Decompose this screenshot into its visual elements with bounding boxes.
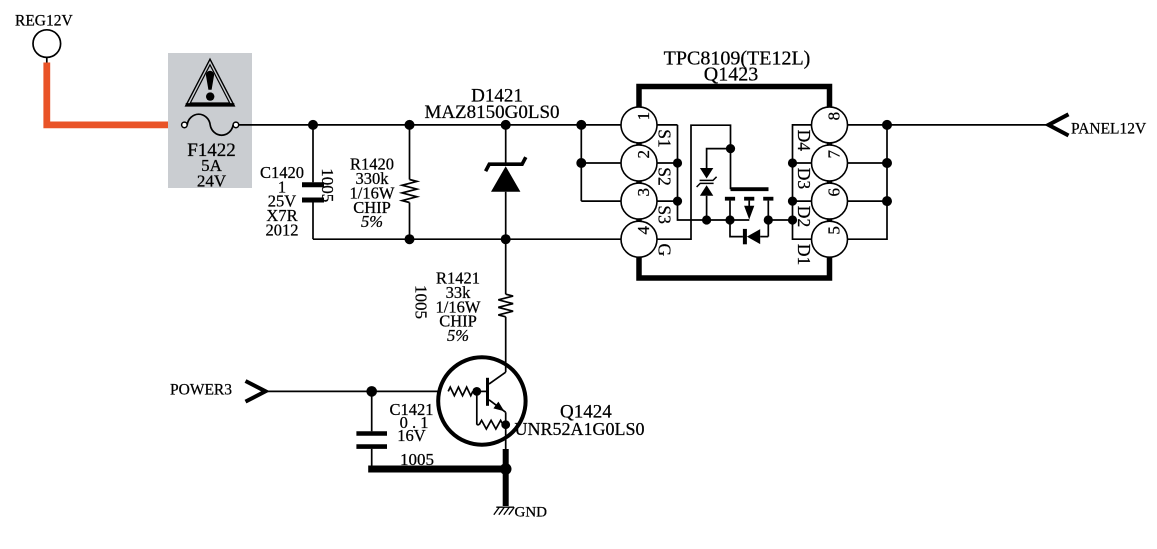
wire D-pins bus xyxy=(793,125,812,239)
wire gate path xyxy=(657,125,731,239)
label C1421 value block xyxy=(389,400,433,445)
junction mosfet drain xyxy=(764,215,773,224)
junction gate/zener xyxy=(726,144,735,153)
wire PANEL12V xyxy=(887,124,1049,126)
junction R1420 bottom xyxy=(405,234,415,244)
ground GND xyxy=(494,507,515,515)
svg-text:REG12V: REG12V xyxy=(15,12,74,29)
zener diode D1421 xyxy=(486,125,526,294)
junction D3 bus xyxy=(788,158,797,167)
junction pin8 bus xyxy=(882,120,892,130)
junction pin2 branch xyxy=(576,158,586,168)
pin 1 circle xyxy=(621,107,657,143)
pin 6 circle xyxy=(812,183,848,219)
junction node S-pins top xyxy=(576,120,586,130)
wire to pin2 xyxy=(581,162,621,164)
wire pin8 to output bus xyxy=(848,124,888,126)
resistor R1421 xyxy=(498,294,513,372)
wire output bus xyxy=(848,125,888,239)
svg-text:S2: S2 xyxy=(654,167,674,185)
wire drain to D bus xyxy=(768,219,792,221)
wire REG12V to F1422 (orange highlight) xyxy=(47,63,182,125)
svg-text:1005: 1005 xyxy=(318,168,337,202)
svg-text:GND: GND xyxy=(515,505,548,521)
pin 7 circle xyxy=(812,145,848,181)
svg-text:1005: 1005 xyxy=(411,285,430,319)
wire to pin3 xyxy=(581,200,621,202)
wire F1422 to IC pin1 (12V rail) xyxy=(239,124,621,126)
junction node R1420 top xyxy=(405,120,415,130)
junction D bus rail xyxy=(788,215,797,224)
label F1422 5A 24V xyxy=(187,140,236,191)
wire gate to protection zener xyxy=(707,149,731,168)
wire pin7 to output bus xyxy=(848,162,888,164)
svg-text:D3: D3 xyxy=(794,168,814,190)
capacitor C1420 xyxy=(302,125,324,239)
warning symbol xyxy=(186,59,235,106)
body diode Q1423 xyxy=(730,220,768,244)
svg-text:4: 4 xyxy=(634,226,653,235)
svg-text:5: 5 xyxy=(825,226,844,235)
junction zener-source xyxy=(702,215,711,224)
transistor Q1424 xyxy=(438,357,525,449)
terminal REG12V xyxy=(33,30,61,66)
label C1420 value block xyxy=(260,163,304,240)
svg-text:7: 7 xyxy=(825,149,844,158)
pin 2 circle xyxy=(621,145,657,181)
pin 3 circle xyxy=(621,183,657,219)
label R1420 value block xyxy=(350,155,395,232)
pin 4 circle xyxy=(621,221,657,257)
svg-text:S3: S3 xyxy=(654,205,674,224)
fuse F1422 xyxy=(182,114,239,135)
svg-text:1: 1 xyxy=(634,112,653,121)
junction node C1420 top xyxy=(308,120,318,130)
svg-text:6: 6 xyxy=(825,188,844,197)
label R1421 value block xyxy=(436,269,481,346)
svg-text:16V: 16V xyxy=(397,426,426,445)
junction C1421 top xyxy=(366,386,377,397)
svg-text:2012: 2012 xyxy=(266,221,299,240)
svg-text:2: 2 xyxy=(634,150,653,159)
fuse highlight box xyxy=(168,53,252,188)
protection zener pair (gate-source) xyxy=(697,168,717,220)
junction S3 bus xyxy=(673,197,682,206)
svg-text:24V: 24V xyxy=(197,171,227,190)
output chevron PANEL12V xyxy=(1049,114,1069,135)
pin 8 circle xyxy=(812,107,848,143)
wire G rail (C1420 to IC pin4) xyxy=(313,238,621,240)
svg-text:3: 3 xyxy=(634,188,653,197)
wire GND heavy trace xyxy=(368,449,506,506)
svg-text:5%: 5% xyxy=(361,212,383,231)
resistor R1420 xyxy=(402,125,417,239)
wire S-pins bus xyxy=(657,125,749,220)
junction mosfet source xyxy=(725,215,734,224)
svg-text:Q1423: Q1423 xyxy=(704,63,758,85)
svg-text:PANEL12V: PANEL12V xyxy=(1071,120,1147,137)
junction S2 bus xyxy=(673,158,682,167)
svg-text:D1: D1 xyxy=(794,244,814,265)
wire pin6 to output bus xyxy=(848,200,888,202)
svg-text:G: G xyxy=(654,244,674,257)
svg-text:8: 8 xyxy=(825,112,844,121)
junction GND trace xyxy=(500,463,512,475)
svg-text:5%: 5% xyxy=(447,326,469,345)
svg-text:POWER3: POWER3 xyxy=(170,381,232,398)
junction pin7 bus xyxy=(882,158,892,168)
svg-text:D2: D2 xyxy=(794,206,814,227)
svg-text:D4: D4 xyxy=(794,130,814,152)
svg-text:UNR52A1G0LS0: UNR52A1G0LS0 xyxy=(515,419,645,439)
capacitor C1421 xyxy=(356,391,387,466)
junction Q1424 base xyxy=(472,387,481,396)
junction D2 bus xyxy=(788,197,797,206)
wire pin1 branch vertical xyxy=(580,125,582,201)
mosfet Q1423 internal xyxy=(725,189,774,236)
junction pin6 bus xyxy=(882,196,892,206)
svg-text:S1: S1 xyxy=(654,129,674,147)
junction D1421 bottom xyxy=(501,234,511,244)
svg-text:MAZ8150G0LS0: MAZ8150G0LS0 xyxy=(424,102,559,123)
pin 5 circle xyxy=(812,221,848,257)
junction node D1421 top xyxy=(501,120,511,130)
IC Q1423 body xyxy=(639,87,830,279)
junction Q1424 emitter xyxy=(501,420,510,429)
wire POWER3 to Q1424 base xyxy=(266,390,439,392)
input chevron POWER3 xyxy=(246,381,266,402)
